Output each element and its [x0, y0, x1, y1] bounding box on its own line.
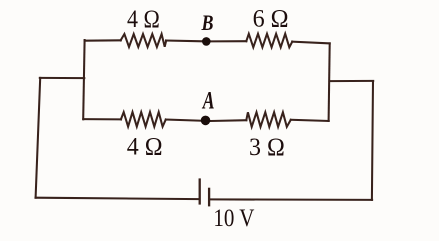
svg-text:3 Ω: 3 Ω	[249, 134, 285, 161]
wire outer-right vertical	[372, 81, 373, 200]
resistor R2 6 ohm top	[246, 34, 292, 48]
node A junction dot	[201, 116, 211, 126]
wire top-right segment	[292, 42, 330, 44]
svg-text:A: A	[201, 86, 214, 115]
resistor R4 3 ohm middle	[246, 112, 290, 127]
wire middle-right segment	[291, 120, 329, 121]
node B junction dot	[202, 37, 211, 46]
wire bottom-left segment	[36, 198, 199, 199]
wire outer-left vertical	[36, 78, 41, 198]
svg-text:4 Ω: 4 Ω	[127, 6, 160, 33]
svg-text:B: B	[201, 10, 214, 35]
wire node-A left segment	[166, 120, 202, 121]
battery V1 long plate	[199, 178, 201, 204]
wire inner-left vertical	[83, 40, 84, 119]
wire right connector	[330, 80, 374, 82]
wire node-B left segment	[166, 39, 202, 42]
resistor R1 4 ohm top	[121, 34, 167, 47]
svg-text:10 V: 10 V	[213, 205, 254, 232]
resistor R3 4 ohm middle	[121, 112, 166, 127]
wire left connector	[40, 77, 85, 79]
battery V1 short plate	[208, 188, 210, 207]
svg-text:4 Ω: 4 Ω	[127, 134, 163, 161]
svg-text:6 Ω: 6 Ω	[253, 6, 289, 33]
wire node-A right segment	[211, 119, 247, 122]
wire node-B right segment	[211, 40, 247, 42]
wire top-left segment	[85, 39, 121, 41]
wire inner-right vertical	[329, 43, 330, 121]
wire middle-left segment	[83, 118, 121, 120]
wire bottom-right segment	[210, 198, 372, 201]
